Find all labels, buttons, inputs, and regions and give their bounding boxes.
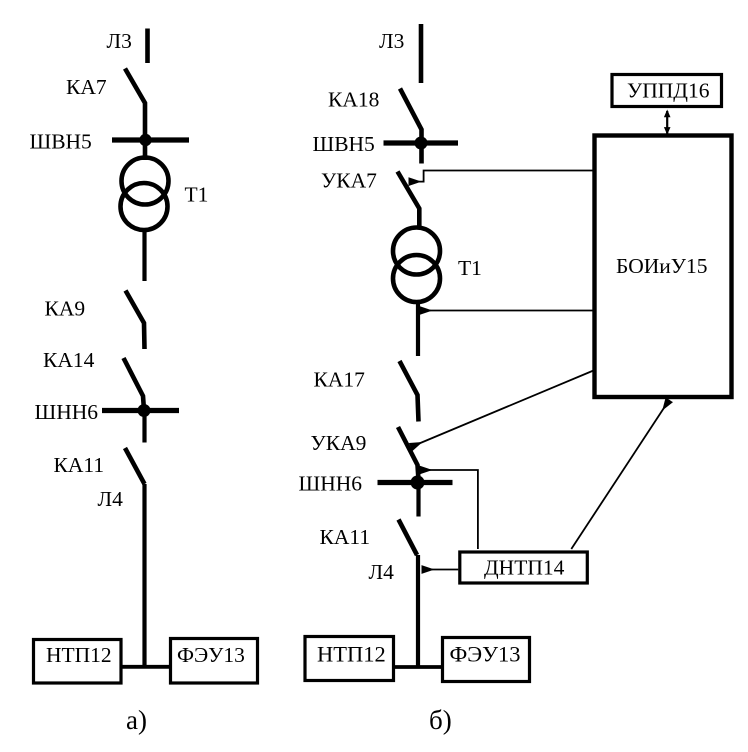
wire: line from ДНТП14 to feeder with arrow [423,569,458,571]
box ДНТП14 [460,552,588,583]
wire below ШНН6 (right) [416,483,420,517]
svg-text:КА7: КА7 [66,75,107,99]
node: junction dot on ШНН6 (right) [411,476,425,490]
svg-text:а): а) [126,705,147,735]
wire: control line from БОИиУ15 to УКА9 with arrow [412,371,594,447]
box ФЭУ13 (right) [443,638,530,682]
svg-text:КА18: КА18 [328,88,379,112]
svg-text:Л3: Л3 [379,29,404,53]
wire below ШНН6 [142,411,146,443]
transformer T1 (left), two windings [122,158,169,205]
svg-text:Т1: Т1 [185,183,209,207]
switch KA18 [400,89,422,164]
wire: feeder Л4 (right) [416,555,420,668]
box ФЭУ13 (left) [171,639,258,684]
svg-text:КА11: КА11 [54,453,105,477]
wire below transformer (right) [416,302,420,356]
svg-text:НТП12: НТП12 [317,642,386,667]
svg-text:ФЭУ13: ФЭУ13 [177,643,245,667]
svg-text:УКА7: УКА7 [321,169,377,193]
svg-text:БОИиУ15: БОИиУ15 [616,254,707,278]
switch УКА9 (controlled breaker arm) [398,427,419,480]
switch KA17 [400,361,419,422]
switch KA14 [124,358,145,410]
svg-text:Т1: Т1 [458,256,482,280]
svg-text:Л3: Л3 [107,29,132,53]
bus ШВН5 (left) [112,137,189,142]
node: junction dot on ШВН5 [139,134,151,146]
wire: double arrow УППД16 - БОИиУ15 [666,111,668,134]
svg-text:КА14: КА14 [43,348,95,372]
switch KA11 (right) [399,520,418,556]
bus ШВН5 (right) [384,140,459,145]
svg-text:Л4: Л4 [369,560,395,584]
wire: incoming line L3 top stub [145,29,150,64]
svg-text:КА17: КА17 [314,368,366,392]
wire: connector between НТП12 and ФЭУ13 (right) [395,665,441,669]
svg-text:Л4: Л4 [98,487,124,511]
svg-text:КА9: КА9 [45,297,86,321]
box НТП12 (left) [34,640,122,684]
wire: sense line to ДНТП14 with arrow at bus [421,470,478,549]
svg-text:УППД16: УППД16 [627,79,710,103]
switch УКА7 (controlled breaker arm) [398,172,420,230]
wire: feeder Л4 (left) [142,484,146,667]
wire: arrow from ДНТП14 up to БОИиУ15 [571,401,668,549]
svg-text:ШВН5: ШВН5 [30,130,92,154]
box БОИиУ15 [595,136,732,398]
svg-text:ШНН6: ШНН6 [35,400,99,424]
switch KA7 [125,69,145,139]
svg-text:ДНТП14: ДНТП14 [484,556,565,580]
wire: control line from БОИиУ15 to transformer lead with arrow [421,310,594,312]
svg-text:КА11: КА11 [320,525,371,549]
box НТП12 (right) [305,637,394,681]
svg-text:ШНН6: ШНН6 [299,472,363,496]
wire below transformer T1 [142,230,146,281]
svg-text:ШВН5: ШВН5 [313,132,375,156]
node: junction dot on ШВН5 (right) [415,137,428,150]
bus ШНН6 (left) [102,408,179,413]
transformer T1 (right), two windings [393,228,440,275]
bus ШНН6 (right) [378,480,453,485]
wire: control line from БОИиУ15 to УКА7 with arrow [410,171,594,182]
svg-text:НТП12: НТП12 [46,643,112,667]
svg-text:ФЭУ13: ФЭУ13 [450,642,521,667]
wire: incoming line L3 top stub (right) [419,24,424,83]
node: junction dot on ШНН6 [138,404,151,417]
svg-text:б): б) [429,705,452,735]
box УППД16 [612,75,722,107]
switch KA11 (left) [125,448,145,484]
wire: connector between НТП12 and ФЭУ13 [123,665,170,669]
switch KA9 [126,291,145,350]
wire: bus to transformer [143,140,148,160]
svg-text:УКА9: УКА9 [311,431,367,455]
